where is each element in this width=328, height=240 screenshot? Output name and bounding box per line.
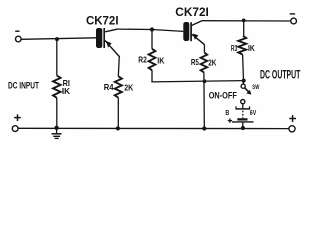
resistor R5 <box>201 53 208 73</box>
svg-text:2K: 2K <box>208 58 216 68</box>
wire R3 bottom lead <box>242 55 245 81</box>
svg-text:2K: 2K <box>124 83 133 93</box>
node collector/R2 junction <box>150 27 154 31</box>
svg-text:B: B <box>225 108 229 117</box>
svg-text:R4: R4 <box>104 82 114 92</box>
svg-text:CK72I: CK72I <box>175 5 209 19</box>
wire R2 bottom lead <box>151 70 153 82</box>
label battery plus <box>228 118 232 122</box>
wire battery top lead <box>242 104 244 109</box>
svg-text:CK72I: CK72I <box>86 14 119 28</box>
label R2 value <box>138 55 164 66</box>
node rail/R1-ground junction <box>54 126 58 130</box>
node rail/R5 junction <box>202 126 206 130</box>
resistor R2 <box>149 49 156 70</box>
output terminal minus (top-right) <box>290 14 297 24</box>
node rail/R4 junction <box>116 126 120 130</box>
ground <box>52 130 62 139</box>
output terminal plus (bottom-right) <box>289 115 296 132</box>
battery B 6V <box>232 106 254 128</box>
svg-text:R2: R2 <box>138 55 147 65</box>
wire R4 bottom lead <box>117 98 119 128</box>
transistor Q1 (CK721) <box>96 28 120 57</box>
svg-text:IK: IK <box>248 44 255 53</box>
svg-text:R3: R3 <box>231 44 238 53</box>
node bus/R3/switch junction <box>242 79 246 83</box>
svg-text:DC OUTPUT: DC OUTPUT <box>260 68 301 82</box>
wire top rail <box>202 20 291 22</box>
input terminal minus (top-left) <box>15 31 21 42</box>
wire Q1 emitter to R4 <box>118 57 119 77</box>
svg-text:IK: IK <box>62 86 70 96</box>
node input/R1 junction <box>55 37 59 41</box>
label R1 value <box>62 78 70 96</box>
svg-text:ON-OFF: ON-OFF <box>209 89 237 100</box>
transistor Q2 (CK721) <box>183 21 204 45</box>
svg-text:IK: IK <box>157 55 164 65</box>
wire bottom rail <box>18 127 289 129</box>
node rail/battery junction <box>241 126 245 130</box>
node bus/R5 junction <box>203 79 207 83</box>
node top rail/R3 junction <box>242 19 246 23</box>
svg-text:DC INPUT: DC INPUT <box>8 80 39 91</box>
wire switch top lead <box>242 81 244 84</box>
wire R1 top lead <box>56 39 58 75</box>
wire R1 bottom lead <box>56 98 58 128</box>
resistor R3 <box>238 36 246 55</box>
wire R2 top lead <box>151 30 153 49</box>
input terminal plus (bottom-left) <box>12 114 21 131</box>
switch SW <box>241 84 251 95</box>
label R5 value <box>191 57 217 67</box>
wire R3 top lead <box>243 20 245 36</box>
label R3 value <box>231 44 255 53</box>
wire Q1 collector to Q2 base <box>118 29 184 31</box>
wire input to Q1 base <box>21 38 96 40</box>
svg-text:SW: SW <box>252 84 259 91</box>
resistor R4 <box>115 76 122 97</box>
label R4 value <box>104 82 134 93</box>
svg-text:6V: 6V <box>250 108 257 117</box>
wire interstage bottom bus <box>151 81 243 82</box>
wire R5 bottom lead <box>203 72 205 128</box>
battery B top terminal <box>241 100 245 104</box>
resistor R1 <box>53 76 61 98</box>
svg-text:R5: R5 <box>191 57 199 67</box>
wire Q2 emitter to R5 <box>203 44 205 52</box>
